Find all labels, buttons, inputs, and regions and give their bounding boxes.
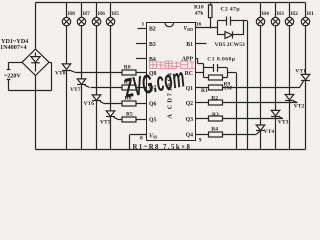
svg-text:Q2: Q2 (186, 101, 194, 107)
svg-text:VT4: VT4 (264, 129, 275, 135)
svg-text:VT1: VT1 (295, 68, 306, 74)
svg-text:VDD: VDD (183, 26, 193, 32)
lamp H1 (301, 3, 309, 75)
zener diode VD5 (218, 31, 244, 38)
svg-text:R8: R8 (124, 65, 131, 71)
wire APP pin to C1 loop (196, 58, 204, 68)
svg-text:1M: 1M (224, 85, 233, 91)
svg-text:~220V: ~220V (4, 73, 21, 80)
svg-text:16: 16 (196, 22, 202, 28)
svg-text:H2: H2 (291, 11, 298, 17)
svg-text:R1~R8 7.5k×8: R1~R8 7.5k×8 (133, 144, 192, 151)
svg-text:R1: R1 (201, 88, 208, 94)
svg-text:H1: H1 (307, 11, 314, 17)
thyristor VT5 (106, 111, 118, 150)
wire bridge bottom vertical (35, 76, 37, 150)
svg-text:8: 8 (140, 136, 143, 142)
svg-text:1N4007×4: 1N4007×4 (0, 44, 27, 51)
svg-text:C2 47μ: C2 47μ (221, 6, 241, 12)
lamp H6 (92, 3, 100, 95)
thyristor VT1 (300, 74, 310, 149)
bridge rectifier YD1-YD4 (22, 49, 49, 75)
wire pin B3 stub (136, 43, 147, 45)
svg-text:B2: B2 (149, 26, 156, 32)
wire pin B2 stub (138, 28, 147, 30)
thyristor VT4 (256, 125, 265, 150)
svg-text:H7: H7 (83, 11, 90, 17)
thyristor VT3 (271, 110, 283, 149)
lamp H4 (256, 3, 264, 126)
wire C1/R9 loop frame and RC pin (196, 68, 237, 150)
resistor R5 (118, 117, 146, 122)
wire pin B1 stub (196, 43, 207, 45)
wire pin VSS to bottom bus (130, 135, 147, 150)
svg-text:RC: RC (185, 71, 193, 77)
resistor R6 (104, 101, 146, 106)
wire pin B4 stub (136, 58, 147, 60)
svg-text:VT3: VT3 (278, 119, 289, 125)
svg-text:R2: R2 (211, 95, 218, 101)
resistor R7 (91, 85, 146, 90)
capacitor C2 (218, 17, 244, 26)
svg-text:VT7: VT7 (70, 87, 81, 93)
op-amp/IC U1 A CD71064 body (147, 23, 196, 141)
IC notch (165, 23, 174, 27)
svg-text:H8: H8 (68, 11, 75, 17)
wire VDD pin to C2/VD5 loop (196, 27, 218, 29)
svg-text:B3: B3 (149, 42, 156, 48)
AC source ~220V wires (7, 62, 52, 90)
wire top bus (36, 2, 306, 4)
node junction R10/VDD (210, 27, 212, 29)
svg-text:VT2: VT2 (294, 104, 305, 110)
svg-text:47k: 47k (195, 11, 205, 17)
svg-text:B1: B1 (186, 42, 193, 48)
svg-text:VT5: VT5 (100, 120, 111, 126)
svg-text:VT6: VT6 (84, 101, 95, 107)
wire C2/VD5 loop frame (218, 21, 248, 150)
svg-text:H4: H4 (262, 11, 269, 17)
svg-text:R4: R4 (211, 127, 218, 133)
capacitor C1 (204, 64, 228, 72)
lamp H2 (285, 3, 293, 95)
resistor R4 (196, 132, 257, 137)
resistor R10 (209, 3, 213, 28)
lamp H5 (106, 3, 114, 111)
svg-text:Q4: Q4 (186, 133, 194, 139)
svg-text:ZVG.com: ZVG.com (121, 62, 187, 103)
svg-text:R5: R5 (126, 112, 133, 118)
thyristor VT6 (92, 95, 104, 150)
svg-text:H5: H5 (112, 11, 119, 17)
wire bridge top vertical (35, 3, 37, 50)
lamp H7 (77, 3, 85, 80)
resistor R9 (204, 75, 228, 80)
resistor R1 (196, 85, 300, 90)
thyristor VT2 (285, 95, 297, 150)
resistor R3 (196, 116, 283, 121)
watermark pink characters (decorative) (150, 61, 196, 69)
wire bottom bus (36, 149, 306, 151)
resistor R8 (76, 70, 146, 75)
svg-text:VD5 2CW53: VD5 2CW53 (215, 42, 246, 48)
svg-text:H3: H3 (277, 11, 284, 17)
lamp H8 (62, 3, 70, 65)
svg-text:Q5: Q5 (149, 118, 157, 124)
svg-text:Q3: Q3 (186, 117, 194, 123)
svg-text:Q6: Q6 (149, 102, 157, 108)
lamp H3 (271, 3, 279, 111)
svg-text:VT8: VT8 (55, 70, 66, 76)
resistor R2 (196, 100, 298, 105)
thyristor VT7 (77, 79, 90, 150)
svg-text:B4: B4 (149, 57, 156, 63)
svg-text:VSS: VSS (149, 133, 158, 139)
svg-text:C1 0.068μ: C1 0.068μ (207, 56, 235, 62)
svg-text:R3: R3 (212, 112, 219, 118)
svg-text:1: 1 (142, 22, 145, 28)
thyristor VT8 (62, 64, 76, 150)
svg-text:H6: H6 (98, 11, 105, 17)
svg-text:9: 9 (199, 138, 202, 144)
